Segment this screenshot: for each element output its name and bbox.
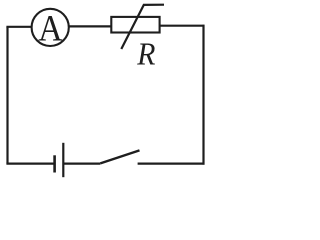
wire right vertical (202, 25, 204, 165)
svg-text:R: R (136, 35, 155, 71)
battery cell short plate (negative) (53, 155, 56, 172)
wire ammeter to rheostat (69, 25, 112, 27)
switch S blade (open) (100, 150, 139, 163)
battery cell long plate (positive) (62, 143, 64, 177)
wire left vertical (6, 27, 8, 164)
rheostat R slider slash (121, 5, 164, 49)
wire switch to bottom-right corner (138, 163, 205, 165)
rheostat R body (111, 17, 159, 33)
wire bottom-left to battery (6, 163, 54, 165)
wire top-left horizontal (6, 26, 33, 28)
svg-text:A: A (38, 7, 63, 49)
ammeter A1 circle (32, 9, 69, 46)
wire battery to switch (63, 163, 100, 165)
wire rheostat to top-right corner (159, 25, 205, 27)
